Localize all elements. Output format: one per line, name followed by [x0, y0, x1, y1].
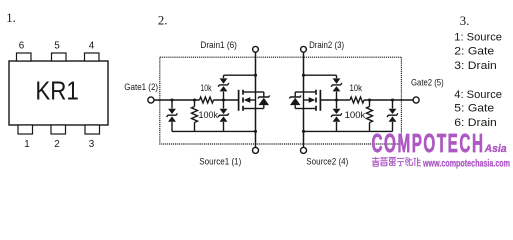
svg-text:10k: 10k: [350, 83, 363, 93]
svg-text:2: 2: [54, 139, 60, 150]
transistor Q2 (N-MOSFET): [304, 90, 321, 111]
logo Chinese tagline: [372, 157, 421, 166]
junction source1 rail: [254, 130, 257, 133]
pin list 2: Gate: [454, 45, 494, 57]
terminal Gate1 (2): [148, 97, 154, 103]
section label 3.: [460, 14, 470, 28]
zener pair D6 clamp lower: [331, 100, 342, 131]
svg-text:100k: 100k: [199, 110, 219, 120]
svg-text:Source2 (4): Source2 (4): [306, 157, 348, 167]
body diode Q1: [256, 92, 270, 109]
label Source1 (1): [199, 157, 241, 167]
svg-text:4: 4: [89, 41, 95, 52]
terminal Source2 (4): [301, 147, 307, 153]
logo COMPOTECH: [372, 130, 485, 158]
label R4 100k: [345, 110, 366, 120]
label Gate1 (2): [124, 82, 158, 92]
svg-text:4: Source: 4: Source: [454, 89, 502, 101]
svg-text:COMPOTECH: COMPOTECH: [372, 130, 485, 158]
pin 3 number: [89, 139, 95, 150]
zener pair D1 gate1-source1: [167, 100, 178, 131]
svg-text:3: Drain: 3: Drain: [454, 60, 497, 72]
resistor R2 100k: [192, 100, 198, 131]
pin 6 pad: [17, 53, 32, 61]
junction gate2-R4: [368, 98, 371, 101]
pin list 4: Source: [454, 89, 502, 101]
terminal Drain2 (3): [301, 46, 307, 52]
transistor Q1 (N-MOSFET): [239, 90, 256, 111]
svg-text:6: 6: [19, 41, 25, 52]
pin list 5: Gate: [454, 103, 494, 115]
package marking KR1: [35, 78, 79, 106]
wire Q2 gate to R3: [320, 99, 350, 101]
terminal Drain1 (6): [253, 46, 259, 52]
svg-text:3.: 3.: [460, 14, 470, 28]
pin 5 number: [54, 41, 60, 52]
pin 3 pad: [85, 125, 100, 134]
logo url: [422, 159, 510, 170]
dashed boundary box: [160, 57, 402, 144]
zener pair D3 clamp lower: [218, 100, 229, 131]
body diode Q2: [289, 92, 303, 109]
pin 6 number: [19, 41, 25, 52]
pin 4 pad: [85, 53, 100, 61]
package U1 body (KR1): [9, 61, 108, 125]
wire drain2 clamp top: [304, 74, 337, 76]
wire R1 to Q1 gate: [214, 99, 239, 101]
wire source rail right: [304, 130, 393, 132]
junction gate1-D1: [170, 98, 173, 101]
label Drain2 (3): [309, 40, 344, 50]
logo Asia: [484, 143, 507, 155]
pin list 1: Source: [454, 31, 502, 43]
terminal Gate2 (5): [413, 97, 419, 103]
wire Source2 vertical: [303, 109, 305, 148]
wire Gate1 to R1: [154, 99, 200, 101]
resistor R3 10k: [350, 97, 364, 103]
terminal Source1 (1): [253, 147, 259, 153]
label Source2 (4): [306, 157, 348, 167]
svg-text:6: Drain: 6: Drain: [454, 117, 497, 129]
zener pair D4 gate2-source2: [387, 100, 398, 131]
svg-text:Source1 (1): Source1 (1): [199, 157, 241, 167]
junction source2 rail: [302, 130, 305, 133]
junction drain1 clamp: [254, 74, 257, 77]
wire Source1 vertical: [255, 109, 257, 148]
svg-text:Drain1 (6): Drain1 (6): [200, 40, 237, 50]
junction gate1-R2: [193, 98, 196, 101]
section label 2.: [158, 13, 168, 27]
zener pair D5 clamp upper: [331, 75, 342, 100]
junction gate2-D6: [335, 98, 338, 101]
resistor R4 100k: [367, 100, 373, 131]
svg-text:10k: 10k: [201, 83, 212, 93]
zener pair D2 clamp upper: [218, 75, 229, 100]
wire Drain2 vertical: [303, 52, 305, 92]
pin 5 pad: [52, 53, 67, 61]
svg-text:Drain2 (3): Drain2 (3): [309, 40, 344, 50]
wire source rail left: [172, 130, 256, 132]
label Drain1 (6): [200, 40, 237, 50]
pin 2 pad: [51, 125, 66, 134]
pin list 6: Drain: [454, 117, 497, 129]
resistor R1 10k: [200, 97, 214, 103]
svg-text:2: Gate: 2: Gate: [454, 45, 494, 57]
wire drain clamp top: [224, 74, 256, 76]
pin 4 number: [89, 41, 95, 52]
svg-text:Asia: Asia: [484, 143, 507, 155]
pin 1 number: [24, 139, 30, 150]
label R2 100k: [199, 110, 219, 120]
label R1 10k: [201, 83, 212, 93]
svg-text:3: 3: [89, 139, 95, 150]
section label 1.: [6, 11, 16, 25]
svg-text:1.: 1.: [6, 11, 16, 25]
svg-text:2.: 2.: [158, 13, 168, 27]
junction drain2 clamp: [302, 74, 305, 77]
junction gate1-D3: [222, 98, 225, 101]
pin 1 pad: [18, 125, 33, 134]
svg-text:100k: 100k: [345, 110, 366, 120]
wire R3 to Gate2: [364, 99, 413, 101]
svg-text:1: 1: [24, 139, 30, 150]
svg-text:Gate2 (5): Gate2 (5): [411, 78, 444, 88]
wire Drain1 vertical: [255, 52, 257, 92]
svg-text:KR1: KR1: [35, 78, 79, 106]
svg-text:www.compotechasia.com: www.compotechasia.com: [422, 159, 510, 170]
junction gate2-D4: [391, 98, 394, 101]
pin list 3: Drain: [454, 60, 497, 72]
svg-text:5: 5: [54, 41, 60, 52]
label Gate2 (5): [411, 78, 444, 88]
label R3 10k: [350, 83, 363, 93]
svg-text:5: Gate: 5: Gate: [454, 103, 494, 115]
pin 2 number: [54, 139, 60, 150]
svg-text:1: Source: 1: Source: [454, 31, 502, 43]
svg-text:Gate1 (2): Gate1 (2): [124, 82, 158, 92]
